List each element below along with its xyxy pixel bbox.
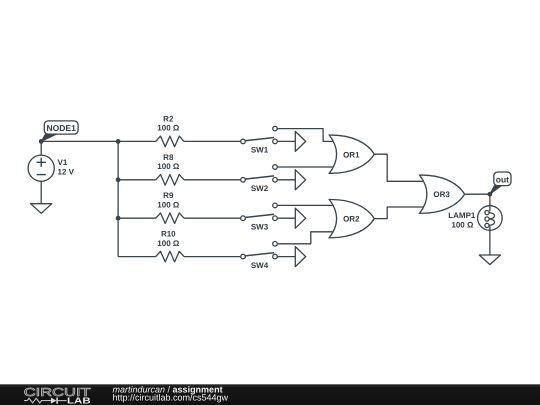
svg-text:V1: V1: [58, 158, 68, 167]
svg-text:R9: R9: [163, 191, 174, 200]
svg-text:SW2: SW2: [251, 184, 269, 193]
svg-text:100 Ω: 100 Ω: [157, 239, 180, 248]
svg-text:100 Ω: 100 Ω: [451, 221, 474, 230]
svg-text:R8: R8: [163, 153, 174, 162]
svg-text:100 Ω: 100 Ω: [157, 162, 180, 171]
svg-text:NODE1: NODE1: [47, 123, 77, 133]
svg-text:LAB: LAB: [67, 395, 91, 405]
svg-text:OR3: OR3: [433, 190, 450, 199]
svg-text:SW1: SW1: [251, 146, 269, 155]
svg-text:100 Ω: 100 Ω: [157, 124, 180, 133]
svg-text:out: out: [496, 175, 509, 185]
svg-text:OR2: OR2: [343, 215, 360, 224]
svg-text:OR1: OR1: [343, 150, 360, 159]
svg-text:R10: R10: [161, 230, 176, 239]
svg-text:SW3: SW3: [251, 222, 269, 231]
svg-text:SW4: SW4: [251, 261, 269, 270]
svg-text:http://circuitlab.com/cs544gw: http://circuitlab.com/cs544gw: [113, 392, 229, 402]
svg-text:R2: R2: [163, 114, 174, 123]
svg-text:LAMP1: LAMP1: [448, 211, 476, 220]
svg-text:12 V: 12 V: [58, 168, 75, 177]
svg-text:100 Ω: 100 Ω: [157, 201, 180, 210]
